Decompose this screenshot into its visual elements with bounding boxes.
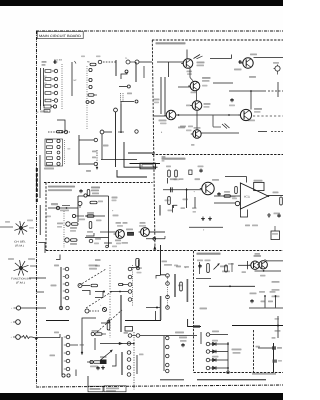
wire corner x82 [82, 318, 96, 330]
conn5 circle r3 [127, 358, 131, 362]
vertical x278 [277, 82, 279, 97]
label R30 R31 [116, 222, 128, 227]
mark plus [112, 210, 114, 213]
power bottom text [252, 373, 276, 375]
label TP row [245, 225, 258, 227]
conn2 circle r4 [64, 359, 70, 363]
stub x76 bottom [75, 370, 77, 377]
label P01 [255, 253, 261, 255]
svg-text:NC: NC [68, 148, 72, 151]
wire y83 [213, 82, 233, 84]
marks video mid [181, 207, 197, 212]
sync box left edge [45, 183, 47, 251]
wire to opamp [214, 195, 240, 197]
wire sync input [48, 207, 78, 209]
label M [124, 332, 129, 334]
bus right of J2 [78, 135, 80, 165]
wire off-board x88 [87, 376, 89, 386]
wire y379 long [160, 379, 266, 381]
input pad circle [235, 201, 239, 205]
rotary switch S1 (channel selector) [14, 221, 27, 235]
diode D3 [206, 356, 228, 362]
label C60 cluster [179, 337, 187, 348]
conn3 dotted column [132, 265, 134, 306]
conn6 circle r3 [166, 354, 169, 357]
wire drop x251 [250, 91, 252, 110]
bottom label box [88, 386, 126, 392]
label Q3 r [204, 103, 211, 108]
sync/video bottom edge [46, 250, 283, 252]
vertical x144 stub [143, 66, 145, 78]
wire drop x115 [115, 112, 117, 167]
label R47 [274, 213, 281, 215]
wire VR1 to board [21, 307, 46, 309]
small box bottom right [271, 226, 280, 240]
small device right [273, 62, 280, 75]
label +12V cluster [104, 242, 117, 248]
bus J1 left outer [40, 68, 42, 106]
conn circle pair r6 [59, 306, 69, 309]
L-wire nested inner [130, 163, 161, 165]
svg-text:C2: C2 [44, 75, 46, 78]
resistor R5 row4 [45, 91, 58, 94]
main board border top [36, 30, 283, 32]
res Rv1 vert [166, 166, 171, 178]
wire Q3 output [149, 231, 165, 233]
svg-text:NC: NC [74, 79, 78, 82]
extra sync part a [72, 214, 84, 217]
resistor at divider bottom [136, 259, 140, 270]
label C11 t [154, 99, 160, 104]
conn4 circle r2 [166, 282, 170, 286]
text row video [170, 178, 200, 180]
wire crossing pin [146, 236, 165, 240]
conn bus x62 lower [61, 337, 63, 375]
wire Q11 out top [265, 260, 284, 262]
tick 31 [92, 151, 97, 153]
ic box R45 [254, 180, 265, 191]
pot arrow diag 1 [79, 269, 106, 286]
resistor row6 [44, 105, 57, 112]
label col right c [272, 296, 280, 298]
label 7v [162, 261, 179, 267]
transistor Q4 if [164, 110, 176, 120]
S2 label line1 [11, 278, 32, 281]
conn5 circle r1 [127, 342, 131, 346]
wire y91 long [229, 90, 283, 92]
wire drop x168 [168, 62, 170, 77]
conn2 circle r2 [64, 343, 78, 347]
main board border left [36, 31, 38, 386]
wire y343 left [100, 342, 134, 344]
tuned cct vertical b [164, 77, 166, 114]
wire y337 from border [37, 337, 58, 339]
cap below [96, 366, 99, 370]
conn2 circle pair r6 [62, 374, 70, 377]
transistor Q11 [257, 261, 267, 269]
label Q3 top [139, 222, 146, 227]
conn5 circle r2 [127, 351, 131, 355]
wire Q2 emitter to Q3 [196, 91, 198, 101]
label R1 1K [42, 61, 47, 66]
tick 32 [92, 157, 96, 159]
res row upper right [91, 330, 106, 336]
res R38 vert [183, 199, 189, 201]
conn2 circle r1 [64, 335, 70, 339]
wire L top conn3 [132, 260, 139, 271]
bus J1 left inner [43, 68, 45, 106]
vertical x167 video [167, 178, 169, 184]
label CA [113, 215, 119, 217]
cap C11 sync [79, 189, 89, 196]
S1 pin labels [5, 220, 34, 229]
vertical x273 ps-right [273, 343, 275, 373]
junction dot mark [118, 131, 124, 133]
coupling C16 [126, 229, 134, 236]
label Q2 [202, 77, 211, 87]
pot diagonal arrow [101, 350, 113, 360]
blob mid ps-right [273, 360, 283, 363]
transistor Q10 [249, 261, 259, 269]
wire Q5 out [254, 57, 284, 59]
conn6 circle r1 [166, 336, 169, 339]
S2 label line2 [16, 282, 25, 285]
wire Q11 out bottom [255, 270, 282, 272]
wire row a to circle [79, 138, 98, 141]
wire conn3 r4 left [110, 291, 128, 293]
component row [88, 94, 97, 96]
wire tuner top-left [157, 61, 184, 63]
long wire y320 [125, 320, 161, 322]
pot circle bl [100, 304, 107, 312]
transistor Q2 mixer [188, 81, 200, 91]
conn4 column [167, 276, 169, 308]
wire y278 ps [196, 278, 211, 280]
conn3 circle r4 [128, 290, 132, 294]
tuned cct vertical a [160, 77, 162, 114]
vertical x186 video [186, 188, 188, 208]
bus x201 [200, 332, 202, 344]
wire corner into conn4 [156, 245, 166, 279]
resistor R4 row3 [44, 82, 58, 88]
conn3 circle r2 [128, 275, 132, 279]
wire y320 left [46, 320, 69, 322]
resistor R2 row1 [45, 69, 58, 72]
pot VR2 circle [11, 320, 21, 325]
label TP5 [273, 192, 279, 194]
S1 lead from page edge [0, 226, 13, 228]
terminal circle x136 row [135, 130, 138, 133]
bus wire along border a [39, 155, 41, 198]
vertical x137 [136, 355, 138, 374]
J2 row2 [47, 145, 61, 148]
sync box label line2 [48, 189, 72, 191]
wire corner bottom [57, 120, 65, 132]
wire bus x108.5 [108, 196, 110, 247]
wire dashes [103, 61, 116, 63]
wire output [269, 195, 283, 197]
op-amp IC1 [240, 183, 268, 209]
res R50 vert [205, 260, 211, 273]
transistor Q2 vert-osc [114, 230, 125, 239]
corner wire left [155, 311, 157, 320]
tuner section box top [152, 39, 283, 41]
rectifier pin 1 [206, 331, 228, 337]
wire top long [139, 61, 152, 63]
wire corner top [56, 255, 60, 260]
transistor Q8 video [200, 182, 214, 194]
thick vertical x122 [121, 352, 123, 375]
comp small [189, 170, 192, 175]
extra sync part c [57, 223, 63, 228]
res vert bl [107, 321, 110, 331]
wire y196 stub [87, 195, 109, 197]
vertical x121 [120, 295, 122, 332]
diode D2 [206, 350, 228, 354]
output junction [267, 195, 269, 197]
label J3 [46, 203, 58, 217]
conn3 circle r1 [128, 267, 132, 271]
dashed drop arrow [96, 150, 98, 170]
antenna arrow Q1 [194, 55, 203, 59]
thick gray vertical a [174, 274, 176, 297]
label IC1 [244, 196, 251, 199]
label +B lm [51, 285, 57, 287]
conn3 circle r5 [128, 298, 132, 302]
wire Q1 emitter to Q2 [190, 68, 193, 81]
terminal circle x102 [100, 130, 112, 159]
cap C31 [277, 214, 280, 218]
wire y216 sync [85, 215, 105, 217]
label 5 [161, 131, 163, 134]
resistor R6 row5 [45, 99, 58, 102]
terminal circle w dashes [85, 309, 99, 313]
label below Q6 [248, 120, 256, 122]
stub left of conn3 [95, 260, 101, 267]
junction dot pwr [146, 307, 160, 309]
terminal circle a [89, 68, 92, 71]
thick gray vertical b [186, 279, 188, 302]
fuse after VR3 [20, 336, 32, 339]
terminal circle c [89, 85, 92, 88]
label C5 [37, 111, 48, 115]
label under J2 [44, 168, 54, 170]
label B+ bottom [175, 332, 184, 334]
video section label [162, 158, 186, 160]
label Q10 [254, 255, 262, 257]
transistor Q5 af [241, 58, 253, 68]
J2 row4 [47, 156, 61, 159]
row with dashes [48, 130, 70, 133]
connector J1 dotted column [61, 64, 63, 110]
res R42 input [230, 187, 238, 198]
marks below Q2 [191, 92, 197, 94]
svg-text:C4 40: C4 40 [54, 59, 63, 62]
gnd below relay [101, 366, 105, 370]
label T2 [54, 265, 59, 267]
small box bl [125, 327, 133, 332]
resistor R3 row2 [44, 75, 58, 81]
diode D1 [206, 340, 228, 346]
power supply inner divider [253, 330, 255, 372]
res row lower right [87, 360, 106, 367]
conn3 circle r3 [128, 283, 132, 287]
wire row b to circle [79, 162, 98, 165]
J2 dotted column [64, 140, 66, 165]
label +B ps [200, 308, 208, 310]
label 24 ps [242, 271, 266, 276]
extra sync part b [79, 219, 85, 221]
sync box label line1 [48, 186, 75, 188]
border corner wire [39, 243, 46, 254]
main circuit board label box [37, 31, 83, 38]
labels C16 C17 [180, 126, 201, 129]
label col right b [272, 289, 280, 291]
cap C13 vert [87, 222, 93, 233]
section divider vertical [152, 40, 155, 250]
mark 7 [191, 144, 195, 146]
wire crossing border y278 [29, 277, 46, 279]
relay block [100, 357, 107, 364]
cap C50 [197, 260, 203, 269]
marks right edge [162, 156, 166, 162]
vertical x195 video [194, 191, 196, 209]
pot VR1 circle [11, 306, 21, 310]
res Rv2 vert [174, 170, 180, 180]
res vert pwr-left [180, 282, 183, 291]
J2 outline [45, 139, 63, 166]
conn5 circle r5 [127, 373, 131, 377]
pot VR3 circle [11, 335, 21, 340]
wire long y335 [140, 335, 197, 337]
wire below grounds [189, 226, 223, 228]
conn6 circle r4 [166, 363, 169, 366]
wire input left [214, 202, 235, 204]
transistor Q7 det [191, 130, 201, 138]
stack2 bus left [40, 100, 42, 110]
transistor Q3 osc [190, 101, 202, 111]
wire y237 [85, 237, 109, 239]
tuner section label [156, 42, 186, 44]
arrow +12V [214, 263, 228, 269]
label C14 det [178, 127, 192, 132]
junction y343 [133, 343, 135, 345]
conn4 circle r1 [166, 274, 170, 278]
sub-box dotted edge [109, 265, 111, 338]
corner video lower [174, 205, 178, 208]
label mr [103, 145, 109, 147]
conn2 circle r5 [64, 367, 70, 371]
wire stub NC [72, 62, 77, 96]
label C19 [250, 54, 257, 56]
resistor R22 [87, 212, 94, 217]
vertical x160 video [159, 205, 161, 216]
svg-text:CH SEL: CH SEL [14, 241, 27, 244]
cap C25 marks [213, 116, 230, 129]
terminal circle mid [114, 108, 118, 112]
terminal circle sync [56, 206, 59, 209]
vertical long x136 [135, 62, 137, 82]
svg-text:MAIN CIRCUIT BOARD: MAIN CIRCUIT BOARD [39, 34, 82, 38]
delay line DL1 [140, 163, 156, 169]
label w [139, 354, 144, 356]
wire fuse to board [32, 337, 38, 339]
capacitor C1 top [53, 59, 63, 64]
tick mark [75, 56, 101, 64]
sync box top edge [44, 182, 153, 184]
wire Q1 collector up [186, 50, 188, 59]
terminal w wire [78, 284, 98, 288]
wire y325 ps [232, 325, 283, 327]
mark top ps-right [272, 337, 276, 339]
tiny marks xx [127, 93, 132, 95]
label C21 [249, 76, 256, 78]
top page black bar [0, 0, 283, 6]
pot arrow diag 3 [97, 310, 122, 332]
wire mid h [119, 85, 130, 88]
gnd mark right [267, 213, 271, 217]
transistor Q8 small [78, 202, 82, 209]
conn6 circle r5 [166, 369, 169, 372]
wire top corner [78, 194, 87, 197]
conn circle r5 [63, 296, 69, 300]
L wire bl [101, 319, 109, 324]
post a ps [264, 295, 266, 307]
rotary switch S2 (function switch) [14, 260, 29, 275]
bottom page black bar [0, 393, 283, 400]
S1 label line1 [14, 241, 27, 244]
label R5 value [87, 61, 96, 66]
cap C52 [250, 293, 257, 304]
J2 row5 [47, 162, 61, 165]
label J17 [112, 197, 118, 202]
wire dashes right [258, 131, 283, 133]
wire Q4 collector [176, 114, 240, 116]
label C6 [187, 71, 193, 75]
stub y292 border [37, 291, 45, 293]
wire Q7 out [201, 132, 239, 134]
dashes right of Q6 [253, 115, 283, 117]
vert into y325 [275, 316, 281, 338]
labels right of conn3 [136, 267, 142, 273]
wire stub v [115, 60, 117, 76]
corner up x60 [54, 332, 60, 338]
label between posts [259, 291, 276, 302]
diode D4 [206, 366, 228, 370]
svg-text:(R.M.): (R.M.) [15, 245, 24, 248]
label block R20 [91, 187, 100, 195]
gnd below Q8 b [208, 217, 212, 221]
label Q8 [212, 179, 219, 181]
J2 row1 [47, 139, 61, 142]
conn circle r1 [63, 267, 69, 271]
J2 row3 [47, 151, 60, 154]
transistor Q3 vert-drv [139, 228, 150, 237]
wire Q3 emitter to Q7 [196, 110, 198, 130]
cap C23 [229, 98, 235, 106]
post b ps [275, 295, 277, 307]
resistor R24 [70, 223, 78, 232]
power supply label [197, 253, 221, 255]
label col right a [272, 281, 280, 283]
main circuit board label [39, 34, 82, 38]
svg-text:C3: C3 [44, 82, 46, 85]
coil T1 circle a [98, 60, 102, 64]
cluster right of Q8 [217, 191, 237, 199]
wire into Q5 [210, 55, 232, 59]
conn circle r4 [63, 289, 69, 293]
bus x95 short [94, 338, 96, 350]
